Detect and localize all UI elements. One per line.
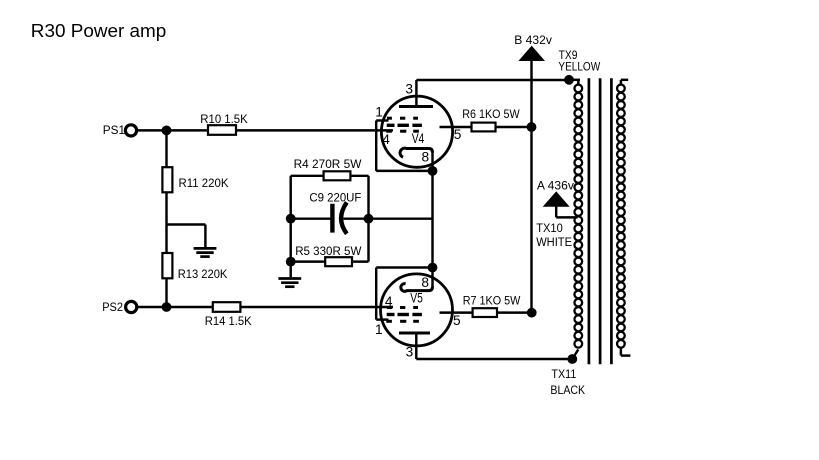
svg-text:4: 4 bbox=[385, 294, 393, 309]
svg-text:R7 1KO 5W: R7 1KO 5W bbox=[463, 293, 521, 307]
svg-text:V4: V4 bbox=[412, 131, 425, 146]
svg-text:A 436v: A 436v bbox=[537, 179, 575, 193]
svg-text:R13 220K: R13 220K bbox=[178, 267, 228, 281]
svg-text:TX10: TX10 bbox=[536, 221, 563, 235]
svg-text:WHITE: WHITE bbox=[536, 235, 572, 249]
svg-text:5: 5 bbox=[454, 127, 462, 142]
svg-text:BLACK: BLACK bbox=[550, 383, 585, 397]
svg-text:TX11: TX11 bbox=[551, 367, 576, 381]
svg-text:R30 Power amp: R30 Power amp bbox=[31, 20, 167, 41]
svg-text:8: 8 bbox=[421, 275, 429, 290]
svg-text:5: 5 bbox=[453, 313, 461, 328]
svg-text:R10 1.5K: R10 1.5K bbox=[200, 112, 248, 126]
svg-text:C9 220UF: C9 220UF bbox=[309, 191, 361, 205]
svg-text:1: 1 bbox=[375, 104, 383, 119]
svg-text:R4 270R 5W: R4 270R 5W bbox=[294, 157, 362, 171]
svg-text:4: 4 bbox=[382, 132, 390, 147]
svg-text:V5: V5 bbox=[410, 291, 423, 306]
svg-text:3: 3 bbox=[406, 344, 414, 359]
svg-text:3: 3 bbox=[405, 81, 413, 96]
svg-text:R11 220K: R11 220K bbox=[179, 176, 230, 190]
svg-text:PS1: PS1 bbox=[103, 123, 125, 137]
svg-text:R5 330R 5W: R5 330R 5W bbox=[295, 244, 362, 258]
svg-text:R6 1KO 5W: R6 1KO 5W bbox=[462, 107, 520, 121]
svg-text:YELLOW: YELLOW bbox=[558, 60, 600, 74]
svg-text:PS2: PS2 bbox=[102, 300, 123, 314]
svg-text:R14 1.5K: R14 1.5K bbox=[205, 314, 253, 328]
svg-text:B 432v: B 432v bbox=[514, 33, 553, 47]
svg-text:1: 1 bbox=[375, 322, 383, 337]
svg-text:8: 8 bbox=[422, 150, 430, 165]
